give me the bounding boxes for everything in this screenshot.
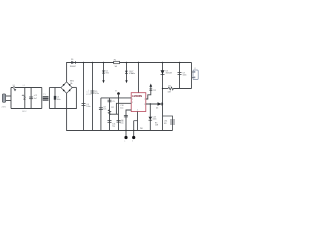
svg-text:4: 4: [137, 110, 138, 112]
wire wiper to IC pin3: [110, 103, 132, 114]
AC plug P1: [2, 94, 12, 108]
wire secondary bottom to bridge right vertex: [49, 87, 76, 108]
svg-text:MOV: MOV: [22, 111, 27, 113]
capacitor on x30.6: [29, 97, 33, 99]
wire IC pin7 jog and +V arrow: [146, 84, 156, 100]
svg-text:2: 2: [132, 99, 133, 101]
junction dots on top rail: [83, 62, 181, 64]
svg-text:1N4148: 1N4148: [166, 73, 172, 75]
wire branch x30.6: [30, 88, 32, 109]
wire vertical x118 from node IN: [117, 94, 124, 131]
svg-text:4700u: 4700u: [86, 94, 91, 96]
speaker LS1: [163, 116, 176, 131]
connector J1 top right: [192, 63, 199, 89]
potentiometer branch x108.9: [108, 98, 116, 131]
transformer T1: [43, 94, 49, 101]
svg-text:T1: T1: [43, 94, 45, 96]
fuse / switch on top rail: [114, 59, 120, 68]
wire vertical x100.4 with capacitor C8: [99, 98, 106, 131]
bridge rectifier BR1: [61, 81, 74, 94]
wire vertical x92.3: [92, 63, 94, 131]
svg-text:+: +: [88, 90, 90, 92]
svg-text:2: 2: [23, 95, 26, 101]
svg-text:D1: D1: [71, 59, 74, 61]
svg-text:230V: 230V: [2, 106, 7, 108]
svg-text:1N4007: 1N4007: [70, 66, 76, 68]
svg-text:7: 7: [144, 99, 145, 101]
svg-text:R1: R1: [169, 85, 171, 87]
svg-text:a: a: [124, 141, 125, 143]
svg-text:3: 3: [132, 102, 133, 104]
svg-text:100n: 100n: [183, 75, 187, 77]
diode D1 on top rail: [70, 59, 76, 68]
svg-text:5: 5: [144, 104, 145, 106]
svg-text:IN: IN: [115, 90, 117, 92]
svg-text:1W: 1W: [140, 128, 143, 130]
svg-text:10u: 10u: [120, 123, 123, 125]
svg-text:C9: C9: [112, 101, 114, 103]
svg-text:10R: 10R: [168, 91, 172, 93]
svg-text:b: b: [132, 141, 133, 143]
wire IC pin4 to ground rail: [134, 112, 138, 131]
svg-text:log: log: [112, 126, 114, 128]
svg-text:100n: 100n: [57, 99, 61, 101]
svg-text:10u: 10u: [120, 107, 123, 109]
wire vertical x83.5: [83, 63, 85, 131]
wire vertical x179 with capacitor C9: [178, 63, 187, 89]
wire vertical x149.8 with diode D5: [149, 103, 159, 130]
wire branch x54.5: [54, 88, 56, 109]
wire input y97.4: [101, 97, 131, 99]
svg-text:C12: C12: [153, 90, 156, 92]
wire vertical x126 with capacitor and arrow: [125, 63, 133, 84]
svg-text:100n: 100n: [131, 73, 135, 75]
wire branch x24.3: [24, 88, 26, 109]
svg-text:5V6: 5V6: [106, 72, 109, 74]
svg-text:1A: 1A: [115, 65, 118, 68]
svg-text:4u7: 4u7: [34, 98, 37, 100]
svg-text:100n: 100n: [86, 106, 90, 108]
svg-text:D4: D4: [156, 107, 158, 109]
junction dot node IN: [115, 90, 120, 94]
wire bottom rail: [67, 93, 173, 130]
svg-text:10n: 10n: [103, 109, 106, 111]
svg-text:C?: C?: [121, 120, 123, 122]
wire vertical x125.5 to IC pin4 area: [121, 110, 131, 131]
svg-text:LM386N: LM386N: [132, 94, 142, 98]
svg-text:R2: R2: [111, 107, 113, 109]
wire output y103.5 with diode D4: [146, 102, 163, 109]
svg-text:J1: J1: [194, 68, 196, 70]
svg-text:8R: 8R: [164, 123, 167, 125]
wire vertical x138 to IC V+ pin: [131, 63, 138, 93]
varistor / neon lamp blob: [22, 95, 27, 113]
capacitor C2 labels: [34, 95, 38, 100]
capacitor C4 on x83.5: [82, 92, 92, 108]
op-amp U1 LM386 (red highlight box): [131, 93, 146, 112]
svg-text:470u: 470u: [95, 93, 99, 95]
wire vertical x103 with diode D2 and arrow: [102, 63, 109, 84]
primary loop wires: [11, 88, 42, 109]
wire y88 with resistor R1: [162, 85, 192, 93]
switch S1: [13, 85, 17, 92]
capacitor C5 electrolytic on x92.3: [88, 90, 99, 95]
svg-text:S1: S1: [13, 85, 15, 87]
capacitor across secondary: [54, 96, 61, 101]
svg-text:10R: 10R: [155, 125, 159, 127]
diode D3 on x162: [161, 70, 172, 74]
wire vertical x162: [162, 63, 164, 131]
svg-text:+C2: +C2: [34, 95, 38, 97]
secondary loop wires: [49, 87, 76, 108]
battery terminal stubs below rail: [124, 130, 135, 143]
wire top rail: [67, 63, 192, 82]
svg-text:100n: 100n: [153, 119, 157, 121]
svg-text:L1: L1: [23, 85, 25, 87]
